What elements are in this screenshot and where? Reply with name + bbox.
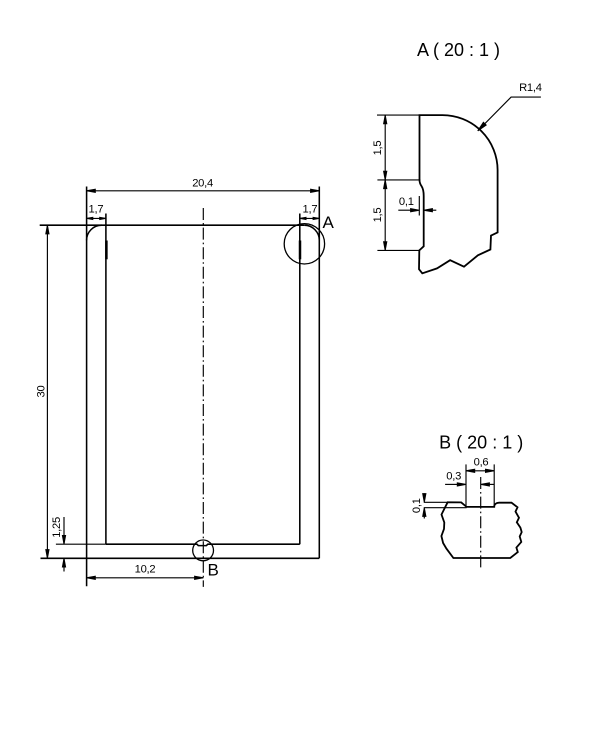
svg-text:1,7: 1,7 bbox=[302, 204, 317, 216]
inner right wall bbox=[299, 214, 301, 545]
dimension 1,7 right bbox=[300, 217, 320, 219]
dimension 0,1 (detail B) bbox=[423, 493, 426, 518]
top edge with left extension bbox=[40, 224, 305, 226]
dimension 0,3 (detail B) bbox=[445, 483, 494, 486]
extension lines for 0,6 (detail B) bbox=[465, 464, 467, 507]
svg-text:10,2: 10,2 bbox=[135, 564, 156, 576]
dimension 1,7 left bbox=[87, 217, 106, 219]
inner bottom line with groove dip at center bbox=[106, 544, 300, 545]
dimension 1,5 / 1,5 chain (detail A) bbox=[384, 115, 387, 250]
extension line bottom (detail A) bbox=[377, 249, 419, 251]
top-right corner radius bbox=[304, 225, 319, 240]
dimension 1,25 bbox=[62, 517, 65, 572]
detail A part outline bbox=[419, 115, 498, 273]
top-left corner radius bbox=[87, 225, 102, 240]
svg-text:0,1: 0,1 bbox=[399, 196, 414, 208]
svg-text:0,6: 0,6 bbox=[474, 456, 489, 468]
svg-text:B ( 20 : 1 ): B ( 20 : 1 ) bbox=[439, 432, 523, 452]
dimension 20,4 bbox=[87, 189, 320, 192]
wall extension line at step (detail A) bbox=[418, 196, 420, 216]
svg-text:B: B bbox=[208, 561, 219, 580]
svg-text:0,1: 0,1 bbox=[411, 498, 423, 513]
dimension 0,6 (detail B) bbox=[466, 469, 494, 472]
svg-text:1,7: 1,7 bbox=[88, 204, 103, 216]
extension line middle (detail A) bbox=[377, 179, 420, 181]
detail circle A bbox=[284, 224, 324, 264]
outer right edge / extension line bbox=[318, 187, 320, 559]
dimension 30 bbox=[46, 225, 49, 558]
outer left edge / extension line bbox=[86, 187, 88, 587]
svg-text:1,25: 1,25 bbox=[51, 517, 63, 538]
leader R1,4 (detail A) bbox=[478, 97, 541, 131]
svg-text:R1,4: R1,4 bbox=[519, 82, 542, 94]
svg-text:0,3: 0,3 bbox=[446, 471, 461, 483]
centerline (detail B) bbox=[480, 477, 482, 568]
svg-text:A ( 20 : 1 ): A ( 20 : 1 ) bbox=[417, 40, 500, 60]
detail B body outline with groove bbox=[441, 502, 521, 558]
left wall 0.1 step segment bbox=[105, 241, 108, 260]
detail circle B bbox=[193, 540, 214, 561]
svg-text:20,4: 20,4 bbox=[192, 178, 213, 190]
svg-text:30: 30 bbox=[36, 386, 48, 398]
extension line for 1,25 (inner bottom extended left) bbox=[56, 543, 106, 545]
inner left wall bbox=[105, 214, 107, 545]
extension lines for 0,1 (detail B) bbox=[424, 501, 448, 503]
svg-text:1,5: 1,5 bbox=[372, 208, 384, 223]
vertical centerline bbox=[202, 208, 204, 587]
svg-text:A: A bbox=[323, 213, 335, 232]
right wall 0.1 step segment bbox=[299, 241, 302, 260]
outer bottom edge with left extension bbox=[41, 557, 320, 559]
extension line top (detail A) bbox=[377, 114, 420, 116]
svg-text:1,5: 1,5 bbox=[372, 141, 384, 156]
dimension 10,2 bbox=[87, 576, 204, 579]
dimension 0,1 (detail A) bbox=[398, 209, 436, 212]
